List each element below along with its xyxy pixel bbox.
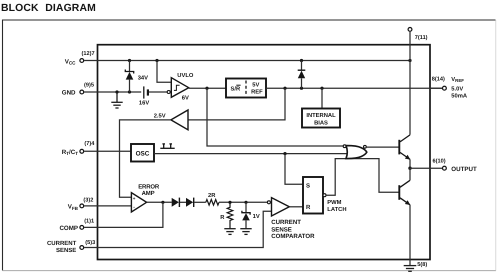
op-amp error amplifier	[131, 184, 160, 212]
node gnd stub	[115, 90, 118, 93]
node output	[408, 167, 411, 170]
ground (under GND line)	[111, 92, 122, 108]
resistor R	[220, 202, 233, 228]
node OSC/latch-S	[283, 152, 286, 155]
svg-text:(12)7: (12)7	[82, 50, 95, 57]
battery 16V	[139, 86, 149, 106]
wire OSC output to gate	[154, 153, 348, 155]
wire to latch S input	[285, 154, 303, 185]
svg-text:+: +	[133, 196, 136, 201]
svg-text:VFB: VFB	[68, 204, 79, 211]
wire Vcc rail	[84, 60, 410, 62]
svg-text:CURRENT: CURRENT	[47, 240, 77, 247]
node 1V zener	[244, 201, 247, 204]
wire COMP to EA output node	[84, 202, 163, 227]
wire gate output to Q1 base	[367, 146, 399, 148]
svg-text:OSC: OSC	[136, 150, 150, 157]
svg-text:2.5V: 2.5V	[154, 113, 166, 120]
wire latch feedback to gate	[326, 159, 399, 196]
wire 2.5V branch	[188, 88, 285, 120]
svg-text:VREF: VREF	[451, 77, 464, 83]
wire VFB to error amp	[84, 205, 131, 207]
svg-text:2R: 2R	[208, 192, 216, 199]
svg-text:BIAS: BIAS	[314, 119, 328, 126]
node ref/internal bias	[320, 87, 323, 90]
wire error amp output	[147, 201, 172, 203]
ground (under R)	[224, 229, 235, 235]
pin VFB (3)2	[68, 197, 94, 211]
oscillator waveform icon	[160, 144, 174, 148]
svg-text:COMP: COMP	[59, 225, 78, 232]
block PWM latch	[303, 177, 347, 214]
resistor 2R	[206, 192, 219, 205]
pin GND (9)5	[62, 82, 94, 97]
wire comparator out to latch R	[289, 206, 303, 208]
wire 5V REF output to pin 8	[266, 87, 442, 89]
svg-text:(9)5: (9)5	[84, 82, 94, 89]
svg-text:PWM: PWM	[327, 200, 341, 206]
svg-text:50mA: 50mA	[451, 92, 468, 99]
wire Vc down to Q1 collector	[409, 32, 411, 135]
svg-text:BLOCK DIAGRAM: BLOCK DIAGRAM	[1, 3, 96, 14]
svg-text:COMPARATOR: COMPARATOR	[271, 233, 315, 240]
wire Vcc sense to UVLO	[157, 61, 171, 83]
svg-text:5(8): 5(8)	[417, 261, 427, 268]
ground (under 1V zener)	[240, 229, 251, 235]
svg-text:16V: 16V	[139, 99, 149, 106]
wire GND line to battery	[84, 91, 141, 93]
svg-text:AMP: AMP	[142, 190, 155, 197]
logic gate NOR	[343, 145, 367, 159]
svg-text:LATCH: LATCH	[327, 206, 346, 213]
op-amp current sense comparator	[267, 198, 315, 241]
block OSC	[131, 144, 154, 162]
op-amp UVLO comparator	[167, 72, 194, 101]
wire RT/CT to OSC	[84, 150, 131, 152]
wire battery to UVLO bubble	[148, 91, 167, 93]
svg-text:6(10): 6(10)	[433, 157, 446, 164]
node ref/diode	[300, 87, 303, 90]
transistor Q2 (lower NPN)	[399, 168, 410, 205]
pin CURRENT SENSE (5)3	[47, 239, 95, 254]
svg-text:S: S	[306, 182, 310, 189]
node Vcc/Vc line	[408, 59, 411, 62]
node EA out / COMP	[161, 201, 164, 204]
wire current sense to comparator	[84, 211, 271, 247]
latch output bubble	[323, 194, 326, 197]
svg-text:34V: 34V	[138, 74, 148, 81]
zener diode 1V	[242, 202, 260, 228]
wire 2R to comparator	[219, 201, 267, 203]
svg-text:5.0V: 5.0V	[451, 86, 463, 93]
node Vcc/diode	[300, 59, 303, 62]
svg-text:CURRENT: CURRENT	[271, 219, 301, 226]
pin Vcc (12)7	[65, 50, 95, 66]
amplifier 2.5V reference	[154, 110, 188, 130]
diode D2	[186, 198, 206, 207]
wire Q2 emitter to ground	[409, 205, 411, 266]
svg-text:ERROR: ERROR	[138, 184, 160, 191]
pin 7(11) Vc	[408, 28, 428, 42]
diode D1	[172, 198, 186, 207]
svg-text:R: R	[306, 204, 311, 211]
wire UVLO output	[189, 87, 226, 89]
svg-text:VCC: VCC	[65, 58, 76, 65]
node Vcc/zener	[128, 59, 131, 62]
svg-text:(1)1: (1)1	[84, 217, 94, 224]
zener diode 34V	[125, 61, 148, 93]
svg-text:1V: 1V	[253, 214, 260, 220]
svg-text:(3)2: (3)2	[83, 197, 93, 204]
node R divider	[228, 201, 231, 204]
svg-text:S/R: S/R	[231, 86, 241, 93]
pin 8(14) VREF	[430, 75, 468, 99]
svg-text:5V: 5V	[252, 83, 259, 89]
IC boundary box	[98, 45, 431, 260]
svg-text:(5)3: (5)3	[85, 239, 95, 246]
node UVLO out	[205, 87, 208, 90]
svg-text:(7)4: (7)4	[84, 140, 95, 147]
wire 2.5V to error amp	[120, 120, 171, 197]
svg-text:7(11): 7(11)	[415, 34, 428, 41]
ground power 5(8)	[404, 261, 428, 271]
node ref/2.5V branch	[283, 87, 286, 90]
svg-text:R: R	[220, 215, 225, 221]
block INTERNAL BIAS	[302, 88, 340, 127]
diode Vref-Vcc	[298, 61, 306, 89]
svg-text:INTERNAL: INTERNAL	[306, 113, 336, 119]
svg-text:SENSE: SENSE	[56, 247, 76, 254]
node zener bottom	[128, 90, 131, 93]
svg-text:8(14): 8(14)	[432, 75, 445, 82]
block S/R 5V REF	[226, 79, 266, 98]
pin COMP (1)1	[59, 217, 94, 232]
svg-text:RT/CT: RT/CT	[62, 149, 78, 156]
svg-text:6V: 6V	[182, 94, 189, 101]
svg-text:OUTPUT: OUTPUT	[451, 166, 477, 173]
pin 6(10) OUTPUT	[410, 157, 477, 173]
wire UVLO disable down/right to gate	[207, 88, 344, 146]
transistor Q1 (upper NPN)	[399, 135, 410, 168]
svg-text:GND: GND	[62, 90, 76, 97]
pin RT/CT (7)4	[62, 140, 96, 156]
svg-text:UVLO: UVLO	[177, 72, 194, 79]
svg-text:REF: REF	[251, 89, 263, 95]
node Vcc/UVLO sense	[155, 59, 158, 62]
